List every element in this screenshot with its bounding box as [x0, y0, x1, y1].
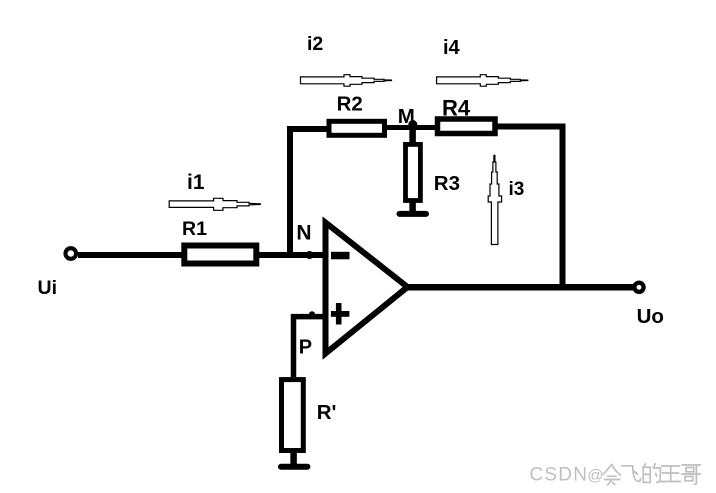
svg-text:CSDN: CSDN — [530, 465, 589, 486]
svg-text:Ui: Ui — [38, 277, 58, 299]
svg-text:Uo: Uo — [637, 305, 664, 328]
svg-text:M: M — [398, 105, 415, 128]
svg-text:P: P — [299, 337, 312, 359]
svg-text:R1: R1 — [182, 218, 207, 240]
svg-text:R': R' — [317, 401, 337, 424]
svg-text:@: @ — [587, 468, 603, 485]
svg-text:R3: R3 — [434, 172, 460, 195]
svg-text:i4: i4 — [443, 37, 461, 59]
svg-text:i3: i3 — [509, 179, 525, 200]
svg-text:i1: i1 — [187, 171, 205, 194]
svg-text:N: N — [296, 221, 311, 244]
svg-text:R2: R2 — [337, 92, 363, 115]
svg-text:R4: R4 — [442, 96, 471, 121]
svg-text:i2: i2 — [307, 33, 323, 55]
